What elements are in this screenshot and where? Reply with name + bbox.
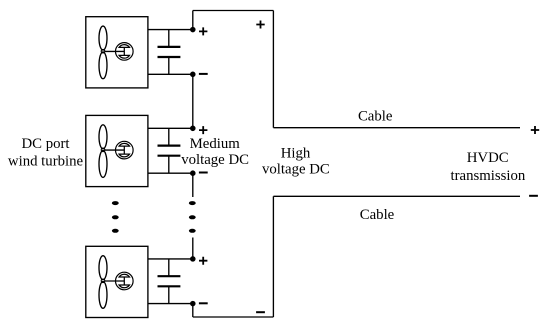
wind turbine WT3 box [86,246,148,317]
WT1 blade upper [99,26,107,50]
WT3 hub [101,279,105,283]
wind turbine WT2 box [86,115,148,186]
ellipsis continuation dots on series bus [189,201,196,233]
svg-text:voltage DC: voltage DC [181,152,249,168]
wire bottom rail [193,316,274,318]
wind turbine WT1 box [86,17,148,88]
node WT2+ junction dot [191,126,195,130]
node WT3- minus label [199,302,208,304]
wire top rail [193,10,274,12]
node HVDC negative terminal minus label [529,195,538,197]
WT1 negative output wire [148,73,193,75]
node WT1- minus label [199,73,208,75]
WT1 generator G1 top pole [119,45,129,48]
WT2 positive output wire [148,127,193,129]
wire right rise bottom rail to negative cable [272,196,274,317]
WT2 shaft [105,149,125,151]
node WT1+ plus label [199,27,207,35]
node WT3- junction dot [191,302,195,306]
svg-text:Medium: Medium [190,136,241,152]
WT3 generator G3 bottom pole [119,285,129,288]
WT1 generator G1 bottom pole [119,55,129,58]
WT2 generator G2 bottom pole [119,154,129,157]
wire positive cable line [273,127,520,129]
WT2 generator G2 top pole [119,143,129,146]
WT1 positive output wire [148,29,193,31]
WT2 blade upper [99,125,107,149]
WT1 generator G1 circle [116,43,134,61]
capacitor C3 bottom lead [168,286,170,303]
wire WT3- to bottom rail [192,304,194,317]
node WT1+ junction dot [191,28,195,32]
node HVDC positive terminal plus label [531,126,539,134]
WT3 generator G3 center bar [123,277,125,285]
WT3 generator G3 circle [116,272,134,290]
capacitor C3 top lead [168,259,170,276]
capacitor C3 bottom plate [158,285,181,287]
node WT3+ junction dot [191,257,195,261]
node WT2- minus label [199,172,208,174]
WT3 generator G3 top pole [119,274,129,277]
capacitor C1 top plate [158,46,181,48]
svg-text:Cable: Cable [360,207,395,223]
WT2 generator G2 circle [116,141,134,159]
capacitor C2 bottom plate [158,155,181,157]
capacitor C3 top plate [158,275,181,277]
WT2 blade lower [99,151,107,178]
node WT3+ plus label [199,257,207,265]
svg-text:wind turbine: wind turbine [8,154,84,170]
capacitor C2 top plate [158,145,181,147]
WT3 shaft [105,280,125,282]
WT1 generator G1 center bar [123,47,125,55]
WT2 generator G2 center bar [123,146,125,154]
ellipsis continuation dots under turbine column [112,201,119,233]
WT3 negative output wire [148,303,193,305]
WT2 hub [101,148,105,152]
svg-text:DC port: DC port [21,136,70,152]
capacitor C2 bottom lead [168,156,170,174]
WT1 blade lower [99,52,107,79]
wire series link WT2- downward stub [192,173,194,197]
svg-text:High: High [281,145,311,161]
wire negative cable line [273,195,520,197]
node WT2+ plus label [199,126,207,134]
node WT1- junction dot [191,72,195,76]
node medium voltage bus minus label [256,311,265,313]
WT3 positive output wire [148,258,193,260]
capacitor C1 top lead [168,30,170,47]
node medium voltage bus plus label [256,21,264,29]
wire series link WT3+ upward stub [192,238,194,259]
capacitor C1 bottom lead [168,57,170,74]
wire riser WT1+ to top rail [192,11,194,30]
svg-text:voltage DC: voltage DC [262,162,330,178]
wire series link WT1- to WT2+ [192,74,194,128]
node WT2- junction dot [191,171,195,175]
WT1 hub [101,49,105,53]
wire right drop top rail to positive cable [272,11,274,128]
WT2 negative output wire [148,172,193,174]
WT3 blade lower [99,282,107,309]
svg-text:HVDC: HVDC [467,150,509,166]
svg-text:transmission: transmission [450,168,525,184]
capacitor C2 top lead [168,128,170,145]
WT1 shaft [105,50,125,52]
svg-text:Cable: Cable [358,109,393,125]
capacitor C1 bottom plate [158,56,181,58]
WT3 blade upper [99,256,107,280]
